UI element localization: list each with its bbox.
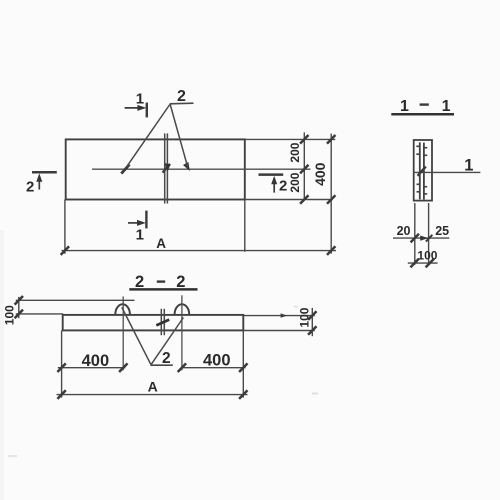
leader leg right bbox=[170, 105, 188, 168]
ticks left 100 bbox=[15, 296, 23, 305]
bar top extension right bbox=[243, 315, 314, 317]
dimension line A (section 2-2) bbox=[57, 394, 248, 396]
svg-text:2: 2 bbox=[177, 88, 186, 105]
ticks on 100 dim bbox=[410, 259, 418, 268]
svg-text:2: 2 bbox=[162, 350, 171, 367]
dimension line 400 right bbox=[181, 367, 246, 369]
extension of bottom edge to the right bbox=[245, 199, 333, 201]
section mark 1 bottom : arrow bbox=[128, 222, 143, 224]
ticks/arrows on 20-25 dim bbox=[411, 234, 419, 243]
extension of top edge to the right bbox=[245, 138, 335, 140]
svg-text:1: 1 bbox=[464, 157, 473, 175]
leader leg from right loop bbox=[151, 318, 183, 365]
tick anchor left on center line bbox=[121, 164, 129, 173]
svg-text:2: 2 bbox=[279, 177, 287, 194]
ticks 400 right bbox=[178, 363, 186, 372]
inner anchor line left bbox=[419, 142, 421, 199]
plan slot line left bbox=[164, 133, 166, 203]
bar left edge extension down bbox=[61, 330, 63, 397]
plan right edge extension down bbox=[244, 200, 246, 252]
dimension line for 200+200 bbox=[303, 132, 305, 200]
svg-text:200: 200 bbox=[288, 142, 302, 162]
bar bottom extension right bbox=[243, 330, 314, 332]
svg-text:1: 1 bbox=[442, 98, 451, 115]
faint scan speckles bbox=[312, 393, 318, 395]
faint paper shading bbox=[0, 230, 4, 500]
plan slot line right bbox=[166, 133, 168, 203]
leader arrowhead right bbox=[183, 162, 190, 171]
svg-text:25: 25 bbox=[435, 224, 449, 238]
section mark 2 left : bar bbox=[32, 171, 57, 174]
ticks A bbox=[57, 390, 65, 399]
axis of left anchor bbox=[122, 296, 124, 370]
anchor weld ticks bbox=[416, 146, 427, 194]
ticks right 100 bbox=[308, 311, 316, 320]
svg-text:400: 400 bbox=[82, 352, 110, 370]
section mark 2 right : shaft+arrow bbox=[273, 179, 275, 193]
svg-text:20: 20 bbox=[397, 224, 411, 238]
svg-text:200: 200 bbox=[288, 172, 302, 192]
section mark 1 top : bar bbox=[146, 103, 148, 118]
svg-text:2: 2 bbox=[26, 178, 34, 195]
svg-text:1: 1 bbox=[136, 227, 144, 244]
plan left edge extension down bbox=[64, 200, 66, 254]
section 1-1 center line bbox=[413, 171, 480, 173]
slot double line (section 2-2) bbox=[160, 309, 162, 335]
section mark 2 right : bar bbox=[259, 173, 284, 176]
svg-text:100: 100 bbox=[417, 249, 437, 263]
svg-text:1: 1 bbox=[136, 90, 144, 107]
svg-text:2: 2 bbox=[176, 273, 185, 291]
extension line right (20/25) bbox=[428, 203, 430, 265]
title underline bbox=[129, 288, 197, 291]
left anchor loop (semicircle) bbox=[115, 304, 130, 314]
title underline bbox=[391, 113, 454, 116]
small arrow blob on extension bbox=[281, 313, 288, 317]
svg-text:100: 100 bbox=[297, 307, 311, 327]
tick at center crossing bbox=[418, 167, 426, 176]
svg-text:1: 1 bbox=[400, 98, 409, 115]
left 100 dimension line bbox=[18, 297, 20, 318]
leader shelf bbox=[170, 102, 194, 105]
svg-text:100: 100 bbox=[3, 305, 17, 325]
ticks 400 left bbox=[57, 363, 65, 372]
extension line left (20/25) bbox=[414, 203, 416, 265]
leader leg from left loop bbox=[122, 307, 151, 364]
dimension line for 400 (extends down to A line) bbox=[330, 134, 332, 254]
right 100 dimension line bbox=[311, 308, 313, 336]
leader arrowhead at slot bbox=[164, 163, 170, 171]
svg-text:400: 400 bbox=[203, 351, 231, 369]
section mark 1 bottom : bar bbox=[145, 211, 147, 229]
bar top extension left bbox=[16, 313, 63, 315]
ticks on 200 dimension line bbox=[300, 135, 308, 144]
svg-text:A: A bbox=[148, 379, 158, 395]
right anchor loop (semicircle) bbox=[175, 304, 190, 314]
axis of right anchor bbox=[181, 295, 183, 370]
apex shelf bbox=[150, 364, 173, 366]
dimension line 400 left bbox=[58, 367, 126, 369]
plan center line bbox=[92, 168, 311, 170]
ticks on A dimension line bbox=[61, 246, 69, 255]
ticks on 400 dimension line bbox=[327, 135, 335, 144]
dimension line 20 / 25 bbox=[393, 237, 449, 239]
dimension line A (plan) bbox=[62, 250, 337, 252]
section mark 1 top : arrow bbox=[125, 107, 143, 109]
svg-text:A: A bbox=[156, 236, 166, 251]
section mark 2 left : shaft+arrow bbox=[38, 177, 40, 190]
svg-text:2: 2 bbox=[135, 273, 144, 291]
section 2-2 bar outline bbox=[63, 315, 244, 331]
plan plate outline bbox=[66, 139, 245, 199]
bold tick at slot (section 2-2) bbox=[156, 320, 169, 326]
tick at slot crossing bbox=[163, 164, 170, 173]
leader leg left bbox=[127, 105, 170, 167]
dimension line 100 (section 1-1) bbox=[408, 262, 438, 264]
bar right edge extension down bbox=[242, 330, 244, 397]
tangent line over loops (left) bbox=[16, 299, 135, 301]
inner anchor line right bbox=[423, 143, 425, 200]
section 1-1 plate outline bbox=[414, 140, 432, 201]
svg-text:400: 400 bbox=[312, 162, 328, 186]
